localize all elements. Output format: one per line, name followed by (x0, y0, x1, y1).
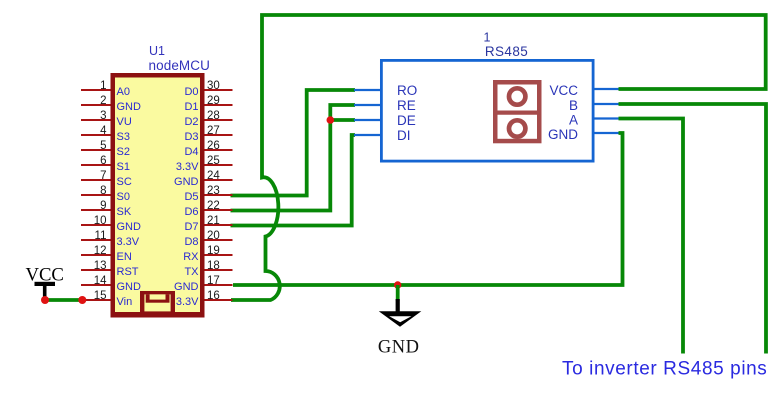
svg-text:25: 25 (207, 155, 220, 167)
svg-text:5: 5 (100, 140, 106, 152)
svg-text:D3: D3 (184, 131, 198, 143)
svg-text:30: 30 (207, 80, 220, 92)
svg-text:SK: SK (117, 206, 132, 218)
svg-text:GND: GND (174, 281, 199, 293)
svg-text:3.3V: 3.3V (176, 296, 199, 308)
svg-text:SC: SC (117, 176, 132, 188)
svg-text:1: 1 (100, 80, 106, 92)
svg-text:RX: RX (183, 251, 199, 263)
svg-text:GND: GND (548, 127, 578, 142)
svg-text:3: 3 (100, 110, 106, 122)
svg-text:D6: D6 (184, 206, 198, 218)
svg-text:RE: RE (397, 98, 416, 113)
svg-text:19: 19 (207, 245, 220, 257)
svg-text:S0: S0 (117, 191, 130, 203)
junction at VCC symbol (41, 296, 49, 304)
svg-text:nodeMCU: nodeMCU (149, 58, 210, 73)
svg-text:2: 2 (100, 95, 106, 107)
svg-text:23: 23 (207, 185, 220, 197)
svg-text:GND: GND (117, 221, 142, 233)
wire D6 (pin22) to RE (231, 105, 356, 211)
wire A to inverter (619, 119, 684, 354)
U1 left pin numbers 1-15 (94, 80, 107, 302)
U1 refdes label (149, 44, 165, 58)
svg-text:S1: S1 (117, 161, 130, 173)
svg-text:A: A (569, 113, 578, 128)
svg-text:D1: D1 (184, 101, 198, 113)
svg-text:D5: D5 (184, 191, 198, 203)
wire B to inverter (619, 104, 767, 354)
svg-text:9: 9 (100, 200, 106, 212)
svg-text:14: 14 (94, 275, 107, 287)
svg-text:29: 29 (207, 95, 220, 107)
RS485 terminal block symbol (493, 82, 542, 141)
svg-text:13: 13 (94, 260, 107, 272)
svg-text:U1: U1 (149, 44, 165, 58)
svg-text:GND: GND (378, 337, 420, 357)
svg-text:VU: VU (117, 116, 132, 128)
svg-text:28: 28 (207, 110, 220, 122)
svg-text:3.3V: 3.3V (117, 236, 140, 248)
svg-text:DI: DI (397, 128, 411, 143)
svg-text:6: 6 (100, 155, 106, 167)
U1 right pin names (174, 86, 199, 308)
svg-text:27: 27 (207, 125, 220, 137)
wire net VCC/3.3V: top loop from RS485 VCC pin to nodeMCU pin16 3.3V (231, 15, 766, 300)
svg-text:GND: GND (117, 281, 142, 293)
svg-text:EN: EN (117, 251, 132, 263)
svg-text:22: 22 (207, 200, 220, 212)
wire GND net: pin17 to RS485 GND (233, 133, 623, 285)
svg-text:D4: D4 (184, 146, 198, 158)
junction at Vin pin (78, 296, 86, 304)
svg-text:8: 8 (100, 185, 106, 197)
RS485 right pin labels (548, 83, 578, 142)
U1 USB notch at bottom (111, 291, 205, 317)
svg-text:GND: GND (117, 101, 142, 113)
svg-text:GND: GND (174, 176, 199, 188)
RS485 value label (485, 44, 528, 59)
svg-text:Vin: Vin (117, 296, 133, 308)
junction DE node (327, 116, 335, 124)
U1 right pin numbers 30-16 (207, 80, 220, 302)
RS485 right pin leads VCC B A GND (593, 89, 619, 133)
svg-text:D8: D8 (184, 236, 198, 248)
svg-text:RO: RO (397, 83, 417, 98)
svg-text:TX: TX (184, 266, 199, 278)
junction GND node (394, 281, 401, 288)
svg-text:3.3V: 3.3V (176, 161, 199, 173)
svg-text:D0: D0 (184, 86, 198, 98)
svg-text:26: 26 (207, 140, 220, 152)
RS485 left pin leads RO RE DE DI (354, 90, 381, 135)
svg-text:B: B (569, 98, 578, 113)
svg-text:21: 21 (207, 215, 220, 227)
wire DE stub from junction (330, 118, 355, 122)
node label: To inverter RS485 pins (562, 359, 767, 380)
RS485 module box (381, 60, 593, 161)
U1 value label nodeMCU (149, 58, 210, 73)
U1 left pin leads 1-15 (81, 90, 111, 300)
svg-text:17: 17 (207, 275, 220, 287)
svg-text:10: 10 (94, 215, 107, 227)
svg-text:7: 7 (100, 170, 106, 182)
svg-text:S3: S3 (117, 131, 130, 143)
U1 right pin leads 30-16 (205, 90, 233, 300)
svg-text:20: 20 (207, 230, 220, 242)
svg-text:RST: RST (117, 266, 139, 278)
svg-text:1: 1 (484, 31, 491, 45)
svg-text:D7: D7 (184, 221, 198, 233)
svg-text:12: 12 (94, 245, 107, 257)
svg-text:11: 11 (95, 230, 107, 242)
svg-text:S2: S2 (117, 146, 130, 158)
svg-text:24: 24 (207, 170, 220, 182)
svg-text:RS485: RS485 (485, 44, 528, 59)
svg-text:DE: DE (397, 113, 416, 128)
wire VCC symbol to Vin pin15 (45, 298, 86, 302)
wire D5 (pin23) to RO (231, 90, 356, 196)
RS485 left pin labels (397, 83, 417, 143)
svg-text:16: 16 (207, 290, 220, 302)
svg-text:15: 15 (94, 290, 107, 302)
svg-text:A0: A0 (117, 86, 130, 98)
svg-text:VCC: VCC (549, 83, 578, 98)
svg-text:To inverter RS485 pins: To inverter RS485 pins (562, 359, 767, 380)
chip U1 nodeMCU body (113, 75, 203, 315)
RS485 refdes label 1 (484, 31, 491, 45)
ground symbol GND (378, 285, 421, 357)
svg-text:4: 4 (100, 125, 107, 137)
power symbol VCC (25, 265, 63, 299)
svg-text:18: 18 (207, 260, 220, 272)
U1 left pin names (117, 86, 142, 308)
svg-text:D2: D2 (184, 116, 198, 128)
wire D7 (pin21) to DI (231, 135, 356, 226)
